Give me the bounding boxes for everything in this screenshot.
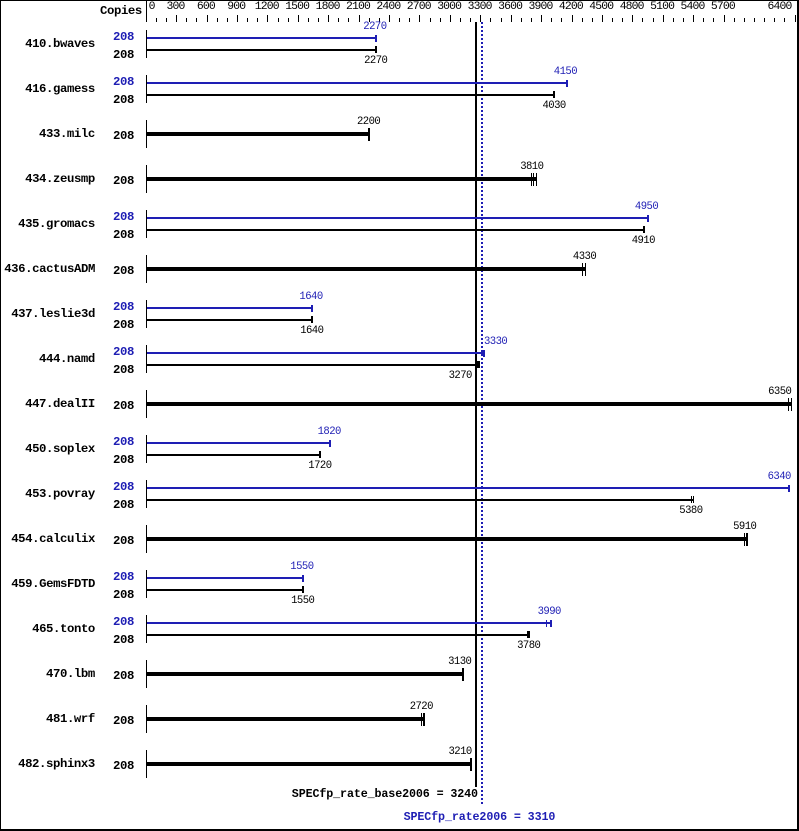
Copies column header xyxy=(100,5,142,17)
row 459.GemsFDTD xyxy=(11,578,95,590)
row 453.povray xyxy=(25,488,95,500)
peak result label xyxy=(404,811,556,823)
axis scale labels xyxy=(149,2,155,13)
row 437.leslie3d xyxy=(11,308,95,320)
base reference line 3240 xyxy=(475,22,477,787)
row 482.sphinx3 xyxy=(18,758,95,770)
peak reference line 3310 (dotted) xyxy=(481,22,483,806)
row 436.cactusADM xyxy=(4,263,95,275)
row 444.namd xyxy=(39,353,95,365)
row 433.milc xyxy=(39,128,95,140)
row 470.lbm xyxy=(46,668,95,680)
row 416.gamess xyxy=(25,83,95,95)
base result label xyxy=(292,788,478,800)
row 434.zeusmp xyxy=(25,173,95,185)
row 410.bwaves xyxy=(25,38,95,50)
row 450.soplex xyxy=(25,443,95,455)
axis tick marks xyxy=(156,18,157,22)
axis origin line xyxy=(146,1,147,22)
row 435.gromacs xyxy=(18,218,95,230)
row 465.tonto xyxy=(32,623,95,635)
row 447.dealII xyxy=(25,398,95,410)
row 481.wrf xyxy=(46,713,95,725)
row 454.calculix xyxy=(11,533,95,545)
